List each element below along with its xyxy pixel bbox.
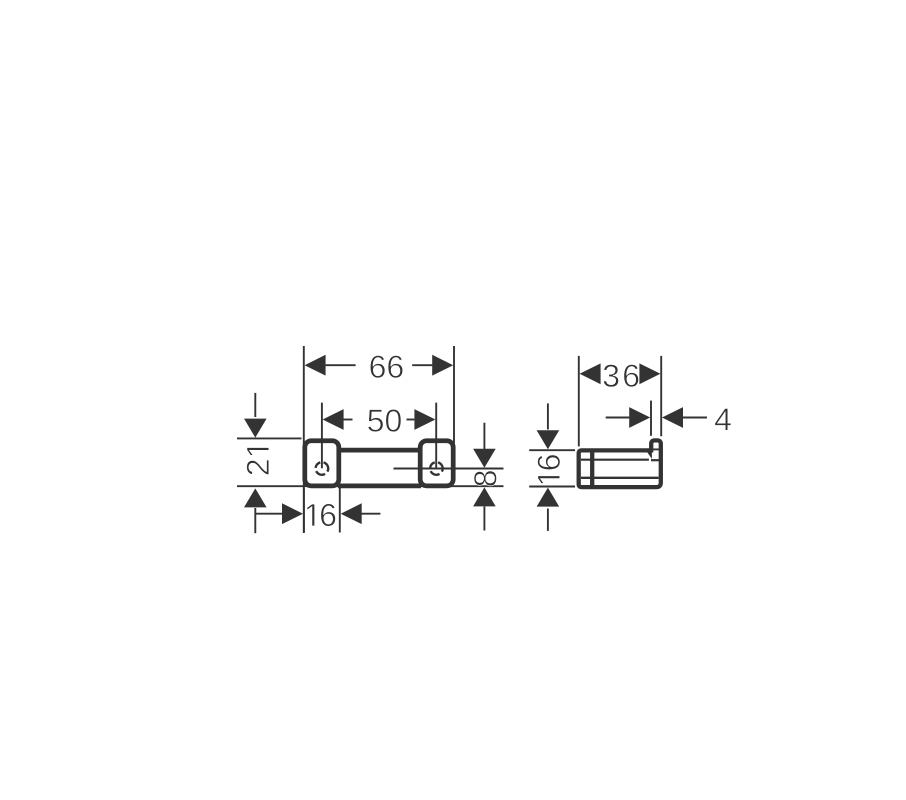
dim text 50 [368, 409, 401, 432]
dim 16 side lower arrow stem [547, 509, 549, 531]
dim 21 down arrowhead [244, 419, 267, 438]
baseline thin line across bottom [237, 485, 504, 487]
hook top edge continuation under lip [652, 448, 660, 450]
dim 16 front right stem [361, 513, 381, 515]
dim 16 front left stem [255, 513, 283, 515]
left screw symbol [316, 462, 329, 474]
dim 50 right arrowhead [414, 409, 435, 430]
dim 16 side bottom boundary line [529, 486, 575, 488]
dim 36 left arrowhead [580, 363, 601, 384]
dim 66 line left stem [326, 364, 356, 366]
dim 66 right arrowhead [432, 355, 453, 376]
dim text 8 (rotated) [474, 471, 497, 486]
dim text 36 [603, 364, 638, 387]
dim 16 front right extension line [339, 488, 341, 533]
dim 16 front right-pointing arrowhead [282, 503, 303, 524]
dim 36 right arrowhead [639, 363, 660, 384]
dim text 21 (rotated) [247, 448, 269, 475]
dim 66 line right stem [412, 364, 432, 366]
dim 16 front left extension line [303, 488, 305, 533]
dim 16 front left-pointing arrowhead [341, 503, 362, 524]
bar top edge [338, 448, 421, 453]
dim 8 lower arrow stem [483, 507, 485, 531]
dim 16 side up arrowhead [537, 488, 560, 507]
dim 50 left arrowhead [323, 409, 344, 430]
dim text 66 [370, 355, 403, 378]
dim 16 side upper arrow stem [547, 403, 549, 429]
hook inner corner wedge [647, 453, 652, 460]
hook wall-plate divider [590, 450, 594, 487]
dim 8 upper arrow stem [483, 423, 485, 449]
right mounting plate [420, 441, 453, 486]
bar bottom edge [338, 484, 421, 489]
dim 8 down arrowhead [473, 449, 496, 468]
right screw symbol [430, 462, 443, 474]
dim 50 line left stem [343, 419, 352, 421]
dim 4 left-pointing arrowhead [662, 407, 683, 428]
dim 8 up arrowhead [473, 487, 496, 506]
dim 66 right extension line [453, 346, 455, 446]
hook body outline [579, 440, 661, 487]
hook inner top line [581, 459, 649, 461]
dim 4 left extension line [650, 401, 652, 436]
dim 50 left extension line [321, 403, 323, 469]
dim 21 up arrowhead [244, 488, 267, 507]
dim 21 top boundary line [237, 437, 302, 439]
hook pocket bottom line [651, 459, 659, 461]
side view group [529, 356, 707, 531]
dim 21 upper arrow stem [254, 393, 256, 417]
hook inner lower line [581, 477, 659, 479]
dim 8 top line (screw axis line) [394, 468, 504, 470]
dim 4 right-pointing arrowhead [629, 407, 650, 428]
dim 21 lower arrow stem [254, 508, 256, 533]
dim 66 left arrowhead [305, 355, 326, 376]
dim 36 left extension line [578, 356, 580, 447]
dim 4 right stem [683, 417, 707, 419]
dim 66 left extension line [303, 346, 305, 533]
dim text 16 side (rotated) [537, 455, 560, 484]
dim 16 side down arrowhead [537, 430, 560, 449]
dim text 4 [715, 408, 731, 430]
dim 36/4 right extension line [660, 356, 662, 436]
dim 16 side top boundary line [529, 449, 575, 451]
dim 50 line right stem [407, 419, 415, 421]
dim 50 right extension line [435, 403, 437, 469]
left mounting plate [305, 441, 339, 486]
dim text 16 front [307, 504, 336, 527]
dim 4 left stem [606, 417, 630, 419]
